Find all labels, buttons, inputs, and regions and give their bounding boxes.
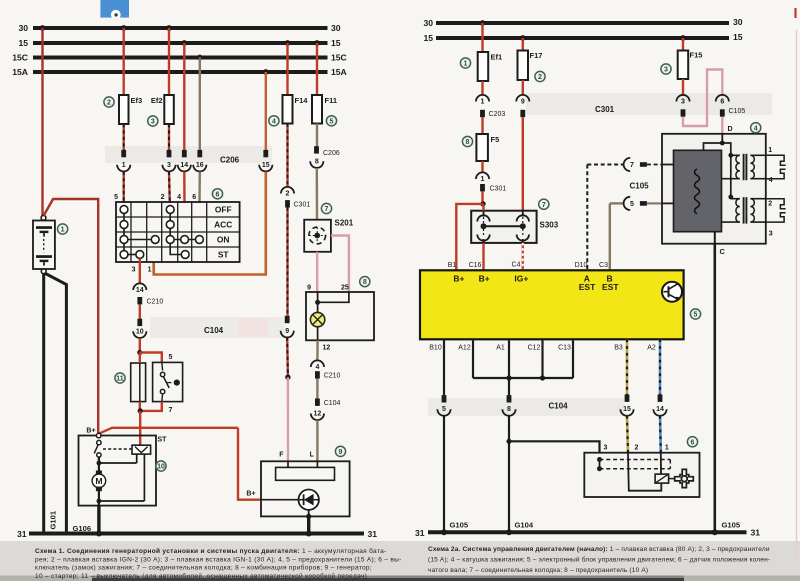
svg-text:C203: C203 (489, 111, 506, 118)
svg-text:16: 16 (196, 162, 204, 169)
svg-text:D: D (727, 126, 732, 133)
svg-text:F14: F14 (295, 96, 309, 105)
svg-text:C13: C13 (558, 345, 571, 352)
svg-text:ON: ON (217, 235, 230, 245)
svg-text:11: 11 (116, 376, 124, 383)
svg-text:1: 1 (61, 227, 65, 234)
svg-text:1: 1 (768, 147, 772, 154)
svg-text:3: 3 (151, 119, 155, 126)
svg-text:C104: C104 (204, 326, 224, 335)
svg-text:C210: C210 (147, 298, 164, 305)
svg-text:A12: A12 (458, 345, 471, 352)
svg-text:12: 12 (314, 411, 322, 418)
svg-text:15: 15 (18, 38, 28, 48)
svg-text:14: 14 (656, 406, 664, 413)
svg-text:1: 1 (481, 99, 485, 106)
svg-text:Ef1: Ef1 (491, 53, 503, 62)
svg-text:15: 15 (623, 406, 631, 413)
svg-text:чатого вала; 7 – соединительна: чатого вала; 7 – соединительная колодка;… (428, 567, 648, 574)
svg-text:B+: B+ (86, 427, 95, 434)
svg-text:2: 2 (161, 194, 165, 201)
svg-text:30: 30 (18, 23, 28, 33)
svg-text:5: 5 (114, 194, 118, 201)
svg-text:L: L (310, 451, 315, 458)
svg-text:4: 4 (754, 125, 758, 132)
svg-text:7: 7 (542, 202, 546, 209)
svg-text:8: 8 (363, 279, 367, 286)
svg-text:15A: 15A (331, 67, 347, 77)
svg-text:8: 8 (507, 406, 511, 413)
svg-text:C301: C301 (595, 105, 615, 114)
svg-text:15C: 15C (331, 53, 347, 63)
svg-text:Ef3: Ef3 (131, 96, 143, 105)
svg-text:10 – стартер; 11 – выключатель: 10 – стартер; 11 – выключатель (для авто… (35, 572, 367, 580)
svg-text:S201: S201 (335, 219, 354, 228)
svg-text:D10: D10 (575, 262, 588, 269)
svg-text:2: 2 (538, 74, 542, 81)
svg-text:9: 9 (339, 449, 343, 456)
svg-text:G105: G105 (722, 521, 741, 530)
svg-text:5: 5 (169, 354, 173, 361)
svg-text:1: 1 (122, 162, 126, 169)
svg-text:EST: EST (579, 282, 596, 292)
svg-text:6: 6 (691, 439, 695, 446)
svg-text:Схема 2а. Система управления д: Схема 2а. Система управления двигателем … (428, 546, 770, 553)
svg-text:2: 2 (768, 201, 772, 208)
svg-text:10: 10 (157, 464, 165, 471)
svg-text:IG+: IG+ (514, 274, 528, 284)
svg-text:5: 5 (442, 406, 446, 413)
svg-text:10: 10 (136, 328, 144, 335)
svg-text:B+: B+ (453, 274, 464, 284)
svg-text:Схема 1. Соединения генераторн: Схема 1. Соединения генераторной установ… (35, 547, 387, 555)
svg-text:B3: B3 (614, 345, 623, 352)
svg-text:3: 3 (167, 162, 171, 169)
svg-text:9: 9 (307, 285, 311, 292)
svg-text:F15: F15 (690, 51, 703, 60)
svg-text:B+: B+ (479, 274, 490, 284)
svg-text:F: F (279, 451, 284, 458)
svg-text:3: 3 (769, 231, 773, 238)
svg-text:2: 2 (635, 445, 639, 452)
svg-text:31: 31 (415, 528, 425, 538)
svg-text:C: C (720, 247, 726, 256)
svg-text:B1: B1 (448, 262, 457, 269)
svg-text:7: 7 (325, 206, 329, 213)
svg-text:15A: 15A (12, 67, 28, 77)
svg-text:C301: C301 (490, 185, 507, 192)
svg-text:4: 4 (177, 194, 181, 201)
svg-text:15: 15 (733, 32, 743, 42)
svg-text:ACC: ACC (214, 220, 232, 230)
svg-text:12: 12 (323, 345, 331, 352)
svg-text:6: 6 (192, 194, 196, 201)
svg-text:5: 5 (630, 201, 634, 208)
svg-text:F5: F5 (491, 135, 500, 144)
svg-text:15C: 15C (12, 53, 28, 63)
svg-text:7: 7 (630, 162, 634, 169)
svg-text:6: 6 (216, 191, 220, 198)
svg-text:G101: G101 (49, 510, 58, 529)
svg-text:8: 8 (315, 158, 319, 165)
svg-text:8: 8 (466, 139, 470, 146)
svg-text:C210: C210 (324, 373, 341, 380)
svg-text:ST: ST (158, 437, 168, 444)
svg-text:2: 2 (107, 100, 111, 107)
svg-text:C105: C105 (630, 182, 650, 191)
svg-text:(15 А); 4 – катушка зажигания;: (15 А); 4 – катушка зажигания; 5 – элект… (428, 555, 770, 563)
svg-text:C16: C16 (469, 262, 482, 269)
svg-text:EST: EST (602, 282, 619, 292)
svg-text:C12: C12 (528, 345, 541, 352)
svg-text:ключатель (замок) зажигания; 7: ключатель (замок) зажигания; 7 – соедини… (35, 564, 372, 572)
svg-text:25: 25 (341, 285, 349, 292)
svg-text:15: 15 (423, 33, 433, 43)
svg-text:G104: G104 (515, 521, 534, 530)
svg-text:4: 4 (315, 364, 319, 371)
svg-text:C301: C301 (294, 201, 311, 208)
svg-text:C4: C4 (512, 262, 521, 269)
svg-text:9: 9 (285, 328, 289, 335)
svg-text:1: 1 (464, 61, 468, 68)
svg-text:C206: C206 (323, 150, 340, 157)
svg-text:A2: A2 (647, 345, 656, 352)
svg-text:OFF: OFF (215, 205, 232, 215)
svg-text:A1: A1 (496, 345, 505, 352)
svg-text:G105: G105 (450, 521, 469, 530)
svg-text:B+: B+ (246, 491, 255, 498)
svg-text:1: 1 (148, 267, 152, 274)
svg-text:1: 1 (481, 176, 485, 183)
svg-text:M: M (95, 476, 102, 486)
svg-text:3: 3 (604, 445, 608, 452)
svg-text:5: 5 (694, 312, 698, 319)
svg-text:S303: S303 (540, 221, 559, 230)
svg-text:C3: C3 (599, 262, 608, 269)
svg-text:4: 4 (769, 177, 773, 184)
svg-text:F17: F17 (530, 51, 543, 60)
svg-text:4: 4 (272, 118, 276, 125)
svg-text:C206: C206 (220, 155, 240, 164)
svg-text:31: 31 (368, 529, 378, 539)
svg-text:30: 30 (733, 17, 743, 27)
svg-text:3: 3 (132, 267, 136, 274)
svg-text:31: 31 (751, 527, 761, 537)
svg-text:C105: C105 (729, 108, 746, 115)
svg-text:14: 14 (136, 287, 144, 294)
svg-text:31: 31 (17, 529, 27, 539)
svg-text:1: 1 (665, 445, 669, 452)
svg-text:C104: C104 (549, 402, 569, 411)
svg-text:3: 3 (664, 67, 668, 74)
svg-text:5: 5 (330, 118, 334, 125)
svg-text:3: 3 (681, 99, 685, 106)
svg-text:9: 9 (521, 99, 525, 106)
svg-text:Ef2: Ef2 (151, 96, 163, 105)
svg-text:6: 6 (720, 99, 724, 106)
svg-text:30: 30 (331, 23, 341, 33)
svg-text:рея; 2 – плавкая вставка IGN-2: рея; 2 – плавкая вставка IGN-2 (30 А); 3… (35, 556, 402, 563)
svg-text:15: 15 (262, 162, 270, 169)
svg-text:2: 2 (286, 191, 290, 198)
svg-text:30: 30 (423, 18, 433, 28)
svg-text:F11: F11 (325, 96, 338, 105)
svg-text:7: 7 (169, 407, 173, 414)
svg-text:14: 14 (180, 162, 188, 169)
svg-text:ST: ST (218, 250, 230, 260)
svg-text:C104: C104 (324, 400, 341, 407)
svg-text:B10: B10 (429, 345, 442, 352)
svg-text:15: 15 (331, 38, 341, 48)
